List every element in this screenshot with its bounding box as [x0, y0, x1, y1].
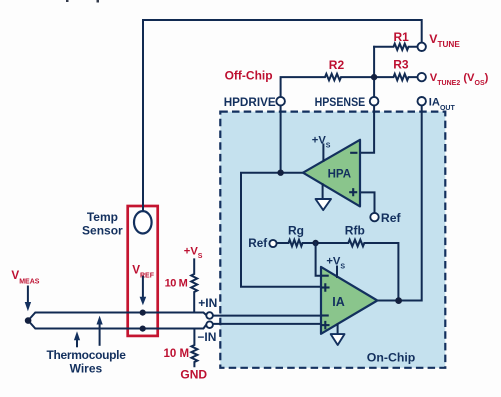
- resistor 10M upper: [191, 259, 197, 312]
- terminal -IN: [206, 321, 213, 328]
- HPA noninverting pin label: [350, 191, 356, 193]
- IA pin 4 (+): [322, 324, 328, 326]
- svg-text:Rg: Rg: [288, 224, 304, 238]
- wire: HPDRIVE into chip down to HPA output node: [280, 106, 282, 173]
- resistor R1: [374, 44, 417, 50]
- node: R2/R3 junction: [371, 74, 377, 80]
- terminal HPDRIVE: [276, 97, 285, 106]
- temp sensor element (ellipse): [134, 211, 152, 233]
- HPA inverting pin label: [351, 152, 356, 154]
- svg-text:10 M: 10 M: [164, 348, 190, 360]
- thermocouple wires (outer pair): [28, 313, 206, 321]
- cut-off caption glyph fragments top edge: [66, 0, 69, 2]
- terminal Ref (HPA): [370, 213, 378, 221]
- svg-text:Ref: Ref: [248, 237, 267, 250]
- node: thermocouple tip: [25, 317, 32, 324]
- svg-text:Sensor: Sensor: [82, 224, 123, 238]
- node: Rg/Rfb junction: [312, 240, 318, 246]
- IA pin 3 (-): [323, 314, 328, 316]
- terminal HPSENSE: [370, 97, 379, 106]
- svg-text:−IN: −IN: [197, 330, 216, 344]
- ground (HPA): [322, 184, 324, 198]
- svg-text:Temp: Temp: [87, 210, 118, 224]
- svg-text:Ref: Ref: [381, 211, 402, 225]
- resistor R3: [374, 74, 417, 80]
- VMEAS pointer arrow: [27, 287, 29, 303]
- wire: IA output to IAOUT terminal: [377, 106, 421, 301]
- node dot VREF upper: [140, 310, 146, 316]
- svg-text:On-Chip: On-Chip: [367, 350, 416, 364]
- svg-text:R2: R2: [329, 58, 345, 72]
- VREF pointer arrow: [142, 277, 144, 297]
- resistor 10M lower: [191, 329, 197, 367]
- svg-text:R1: R1: [394, 30, 410, 44]
- IA pin 1 (-): [323, 275, 328, 277]
- node: IA output / Rfb junction: [395, 297, 402, 304]
- wire: HPSENSE into chip to HPA inverting input: [360, 106, 374, 153]
- thermocouple pointer arrow (upper wire): [99, 323, 101, 345]
- svg-text:HPA: HPA: [328, 168, 351, 180]
- svg-text:GND: GND: [180, 367, 207, 381]
- op-amp U2 IA: [321, 267, 377, 334]
- wire: +IN into chip to IA input: [213, 315, 321, 317]
- svg-text:10 M: 10 M: [165, 278, 188, 290]
- resistor Rg: [277, 240, 315, 246]
- terminal VTUNE: [418, 43, 426, 51]
- +VS supply stem (IA): [336, 267, 338, 278]
- resistor R2: [281, 74, 375, 97]
- svg-text:HPSENSE: HPSENSE: [315, 95, 366, 109]
- terminal VTUNE2: [418, 73, 426, 81]
- wire: feedback to IA top inverting input: [316, 243, 321, 276]
- node: HPA output / HPDRIVE junction: [277, 170, 283, 176]
- resistor Rfb: [316, 240, 399, 301]
- wire: top loop from sensor to VTUNE: [143, 20, 422, 212]
- temp sensor red outline rect: [128, 206, 158, 336]
- svg-text:Wires: Wires: [70, 362, 103, 376]
- svg-text:Thermocouple: Thermocouple: [47, 348, 127, 362]
- terminal IAOUT: [418, 97, 426, 105]
- wire: HPA + input to Ref terminal: [360, 192, 375, 212]
- +VS supply stem (HPA): [322, 145, 324, 161]
- svg-text:HPDRIVE: HPDRIVE: [224, 95, 276, 109]
- terminal Ref (IA input network): [269, 240, 276, 247]
- wire: HPA output to IA + input (via left column): [241, 173, 321, 287]
- wire: node column x374 R1 down to junction: [373, 47, 375, 97]
- svg-text:Off-Chip: Off-Chip: [225, 69, 273, 83]
- ground (IA): [337, 324, 339, 333]
- wire: -IN into chip to IA input: [213, 323, 321, 325]
- terminal +IN: [206, 312, 213, 319]
- op-amp U1 HPA: [303, 140, 360, 207]
- thermocouple pointer arrow (lower wire): [76, 341, 78, 347]
- IA pin 2 (+): [322, 286, 328, 288]
- svg-text:+IN: +IN: [198, 296, 217, 310]
- svg-text:IA: IA: [332, 295, 345, 309]
- svg-text:R3: R3: [393, 58, 409, 72]
- on-chip region box: [220, 112, 445, 368]
- node dot VREF lower: [140, 326, 146, 332]
- svg-text:Rfb: Rfb: [345, 224, 365, 238]
